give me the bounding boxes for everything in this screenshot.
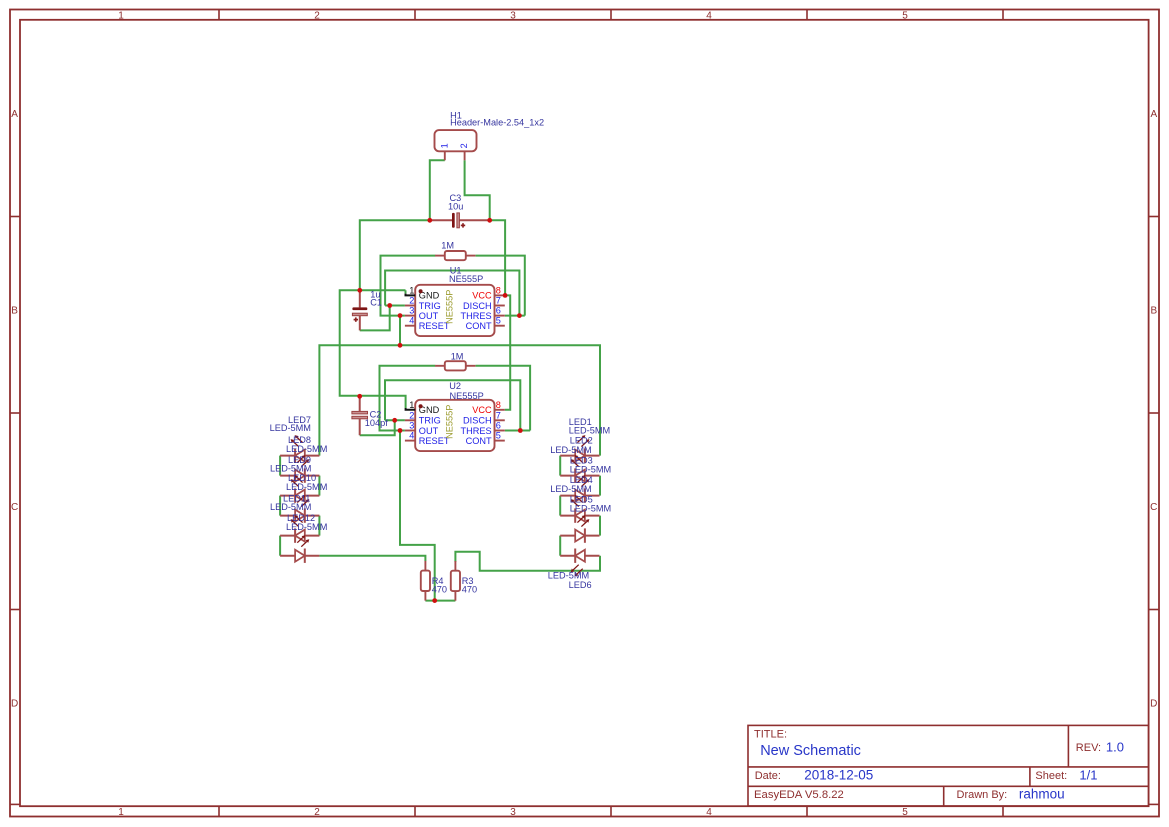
svg-text:NE555P: NE555P	[445, 290, 455, 324]
svg-text:1M: 1M	[441, 240, 454, 250]
svg-text:5: 5	[902, 11, 908, 22]
svg-text:NE555P: NE555P	[450, 391, 484, 401]
svg-text:D: D	[11, 698, 18, 709]
svg-text:470: 470	[462, 585, 477, 595]
svg-text:2: 2	[459, 143, 469, 148]
svg-text:LED-5MM: LED-5MM	[569, 425, 610, 435]
svg-text:TRIG: TRIG	[419, 301, 441, 311]
svg-text:5: 5	[496, 316, 501, 326]
svg-text:2018-12-05: 2018-12-05	[804, 767, 873, 782]
svg-text:470: 470	[432, 585, 447, 595]
svg-text:1: 1	[409, 285, 414, 295]
svg-text:LED-5MM: LED-5MM	[286, 444, 327, 454]
svg-text:7: 7	[496, 296, 501, 306]
svg-text:A: A	[1150, 109, 1157, 120]
svg-text:D: D	[1150, 698, 1157, 709]
svg-text:EasyEDA V5.8.22: EasyEDA V5.8.22	[754, 789, 844, 801]
svg-text:LED-5MM: LED-5MM	[270, 423, 311, 433]
svg-text:A: A	[11, 109, 18, 120]
svg-text:C1: C1	[370, 297, 382, 307]
svg-text:LED-5MM: LED-5MM	[550, 484, 591, 494]
svg-text:rahmou: rahmou	[1019, 787, 1065, 802]
svg-text:LED-5MM: LED-5MM	[570, 464, 611, 474]
svg-text:3: 3	[510, 11, 516, 22]
svg-text:NE555P: NE555P	[449, 274, 483, 284]
svg-text:5: 5	[496, 431, 501, 441]
svg-text:THRES: THRES	[460, 426, 491, 436]
svg-text:LED-5MM: LED-5MM	[270, 502, 311, 512]
svg-text:LED-5MM: LED-5MM	[270, 463, 311, 473]
svg-text:LED-5MM: LED-5MM	[286, 482, 327, 492]
svg-text:1/1: 1/1	[1079, 767, 1097, 782]
svg-text:3: 3	[510, 807, 516, 818]
svg-text:U2: U2	[449, 381, 461, 391]
svg-text:LED-5MM: LED-5MM	[286, 522, 327, 532]
svg-text:C: C	[11, 502, 18, 513]
svg-text:4: 4	[706, 11, 712, 22]
svg-text:8: 8	[496, 285, 501, 295]
svg-text:OUT: OUT	[419, 311, 439, 321]
svg-text:TITLE:: TITLE:	[754, 729, 787, 741]
svg-text:3: 3	[409, 306, 414, 316]
svg-text:Date:: Date:	[755, 770, 781, 782]
svg-text:2: 2	[314, 11, 320, 22]
svg-text:REV:: REV:	[1076, 742, 1101, 754]
svg-text:CONT: CONT	[466, 436, 492, 446]
svg-text:LED-5MM: LED-5MM	[548, 571, 589, 581]
svg-text:6: 6	[496, 306, 501, 316]
svg-text:DISCH: DISCH	[463, 301, 492, 311]
svg-text:New Schematic: New Schematic	[760, 743, 861, 759]
svg-text:2: 2	[314, 807, 320, 818]
svg-text:1.0: 1.0	[1106, 740, 1124, 755]
svg-text:1M: 1M	[451, 352, 464, 362]
svg-text:B: B	[1150, 305, 1157, 316]
svg-text:8: 8	[496, 400, 501, 410]
svg-text:10u: 10u	[448, 201, 463, 211]
svg-text:THRES: THRES	[460, 311, 491, 321]
svg-text:VCC: VCC	[472, 291, 492, 301]
svg-text:4: 4	[706, 807, 712, 818]
svg-text:LED-5MM: LED-5MM	[550, 445, 591, 455]
svg-text:2: 2	[409, 296, 414, 306]
svg-text:B: B	[11, 305, 18, 316]
svg-text:DISCH: DISCH	[463, 416, 492, 426]
svg-text:Sheet:: Sheet:	[1035, 770, 1067, 782]
svg-text:TRIG: TRIG	[419, 416, 441, 426]
svg-text:4: 4	[409, 431, 414, 441]
svg-text:LED6: LED6	[569, 580, 592, 590]
svg-text:104pf: 104pf	[365, 418, 388, 428]
svg-text:CONT: CONT	[466, 321, 492, 331]
svg-text:VCC: VCC	[472, 405, 492, 415]
svg-text:3: 3	[409, 421, 414, 431]
svg-text:C: C	[1150, 502, 1157, 513]
svg-text:OUT: OUT	[419, 426, 439, 436]
svg-text:2: 2	[409, 410, 414, 420]
svg-text:5: 5	[902, 807, 908, 818]
svg-text:LED-5MM: LED-5MM	[570, 504, 611, 514]
svg-text:NE555P: NE555P	[445, 405, 455, 439]
svg-text:1: 1	[118, 11, 124, 22]
svg-text:4: 4	[409, 316, 414, 326]
svg-text:6: 6	[496, 421, 501, 431]
svg-text:Drawn By:: Drawn By:	[957, 789, 1008, 801]
svg-text:Header-Male-2.54_1x2: Header-Male-2.54_1x2	[450, 118, 544, 128]
svg-text:1: 1	[118, 807, 124, 818]
svg-text:1: 1	[439, 143, 449, 148]
svg-text:1: 1	[409, 400, 414, 410]
svg-text:7: 7	[496, 410, 501, 420]
